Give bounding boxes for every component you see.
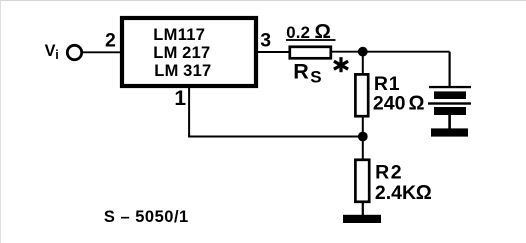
wire: junction down to R1 [362, 52, 364, 75]
wire: pin 3 to resistor RS [256, 51, 290, 53]
ground under battery [431, 128, 468, 136]
battery thick plate 1 [434, 91, 466, 99]
underline below 0.2 ohm [286, 39, 336, 41]
designator label RS [293, 59, 321, 86]
wire: pin 1 across to adjust junction [188, 136, 363, 138]
svg-text:i: i [55, 48, 58, 62]
wire: R1 to adjust junction [362, 116, 364, 137]
svg-text:1: 1 [174, 87, 186, 110]
wire: RS to top-right corner [331, 51, 450, 53]
svg-text:R: R [293, 59, 309, 83]
node: adjust junction dot [358, 132, 368, 142]
wire: corner down to battery [449, 52, 451, 87]
svg-text:LM 217: LM 217 [153, 44, 210, 62]
battery thick plate 2 [434, 107, 466, 115]
ground under R2 [343, 215, 381, 223]
svg-text:3: 3 [260, 30, 271, 52]
resistor R2 body [355, 160, 369, 202]
wire: R2 to ground [362, 202, 364, 216]
svg-text:S – 5050/1: S – 5050/1 [104, 208, 189, 226]
wire: battery to ground [448, 115, 451, 129]
regulator U1 box [122, 18, 256, 86]
svg-text:R2: R2 [375, 161, 403, 183]
wire: junction down to R2 [362, 137, 364, 161]
asterisk note mark [334, 57, 348, 72]
svg-text:V: V [45, 42, 56, 60]
wire: pin 1 down [188, 86, 190, 137]
battery thin plate 2 [428, 102, 471, 104]
battery top thin plate [429, 86, 471, 88]
regulator U1 text LM117 / LM217 / LM317 [153, 26, 211, 80]
input terminal Vi label [45, 42, 59, 62]
svg-text:LM 317: LM 317 [154, 62, 211, 80]
svg-text:S: S [310, 67, 321, 86]
svg-text:LM117: LM117 [153, 26, 205, 44]
input terminal circle [67, 45, 81, 59]
resistor R1 body [355, 74, 368, 116]
svg-text:240Ω: 240Ω [373, 93, 425, 115]
svg-text:2.4KΩ: 2.4KΩ [375, 182, 432, 204]
resistor RS body [290, 47, 331, 59]
svg-text:2: 2 [105, 29, 116, 51]
node: output junction dot [358, 47, 368, 57]
wire: terminal to pin 2 [82, 51, 122, 53]
